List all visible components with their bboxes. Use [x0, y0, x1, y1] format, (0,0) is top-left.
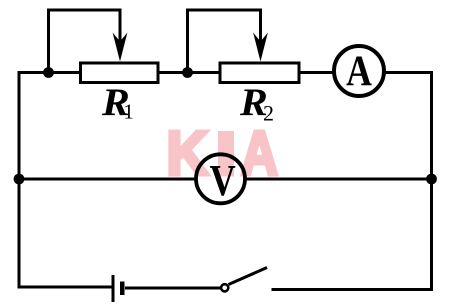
ammeter A — [334, 46, 384, 96]
node junction dot left of R2 — [182, 67, 193, 78]
wire right vertical — [430, 71, 433, 291]
resistor R2 — [220, 63, 299, 83]
wire R2 to ammeter — [299, 71, 334, 74]
node junction dot middle-right — [426, 174, 437, 185]
svg-text:A: A — [346, 47, 372, 95]
wire battery to switch — [125, 287, 221, 290]
wire left vertical — [18, 71, 21, 289]
svg-text:V: V — [210, 156, 236, 205]
svg-text:1: 1 — [123, 100, 133, 124]
wire ammeter to right corner — [385, 71, 434, 74]
node junction dot left of R1 — [43, 67, 54, 78]
wire bottom left to battery — [18, 286, 113, 289]
arrowhead of R2 slider — [253, 33, 268, 62]
wire slider loop of R1 — [49, 10, 121, 70]
switch pivot — [221, 284, 228, 291]
wire middle right (voltmeter branch) — [245, 178, 433, 181]
node junction dot middle-left — [14, 174, 25, 185]
wire bottom right segment — [272, 288, 434, 291]
battery long plate (+) — [112, 275, 115, 302]
wire top left segment — [18, 71, 81, 74]
watermark KIA — [166, 119, 278, 189]
svg-text:2: 2 — [263, 101, 274, 126]
wire middle left (voltmeter branch) — [18, 178, 197, 181]
wire slider loop of R2 — [188, 10, 261, 70]
battery short thick plate (-) — [120, 282, 125, 296]
voltmeter V — [196, 154, 245, 203]
arrowhead of R1 slider — [113, 33, 128, 62]
resistor R1 — [81, 63, 159, 83]
wire between R1 and R2 — [158, 71, 220, 74]
switch lever — [229, 268, 268, 285]
